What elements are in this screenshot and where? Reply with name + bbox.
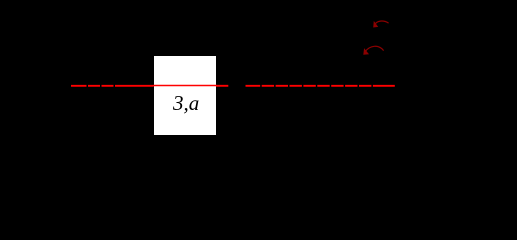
curved arrow top (small, dark red) (373, 21, 388, 28)
wire: short thick red segment right of slab (216, 85, 228, 87)
wire: dashed red beam, right segment (246, 85, 395, 87)
white slab (plate) (154, 56, 216, 135)
wire: thin red beam across slab (153, 85, 216, 87)
curved arrow bottom (large, dark red) (363, 46, 383, 55)
svg-text:3,a: 3,a (172, 91, 199, 115)
wire: dashed red beam, left segment (71, 85, 154, 87)
